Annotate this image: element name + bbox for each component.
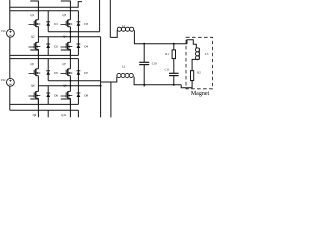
wire C10 bottom lead xyxy=(143,65,145,87)
transistor Q4 xyxy=(68,41,71,43)
wire Q6 drain from mid xyxy=(37,86,39,92)
node leg2-W2 junction xyxy=(69,31,71,33)
svg-text:Q5: Q5 xyxy=(30,62,34,66)
svg-text:D4: D4 xyxy=(84,45,88,49)
wire Q7 source to mid xyxy=(69,76,71,86)
wire L1 feed vertical (cut at top) xyxy=(109,0,111,37)
diode D8 xyxy=(77,92,81,94)
svg-text:Q2: Q2 xyxy=(31,35,35,39)
wire L1 out to top node xyxy=(134,30,144,44)
svg-text:Q11: Q11 xyxy=(61,113,67,117)
node leg2-W1 junction xyxy=(69,85,71,87)
node R1 top junction xyxy=(173,43,175,45)
capacitor C10 xyxy=(139,61,149,63)
wire top node xyxy=(144,43,187,45)
transistor Q1 xyxy=(36,19,39,21)
diode D3 xyxy=(77,11,79,56)
wire bridge3 leg2 stub+bus (cut) xyxy=(61,99,71,117)
wire top rail B xyxy=(10,58,79,60)
diode D6 xyxy=(47,86,49,105)
wire L2 out to bottom node xyxy=(134,77,144,85)
wire DC bus below source 2 xyxy=(9,86,11,110)
svg-text:D5: D5 xyxy=(54,71,58,75)
wire bottom rail xyxy=(10,103,79,105)
wire Q5 source to mid xyxy=(37,76,39,86)
wire Q2 source to rail xyxy=(37,49,39,55)
node C11 bottom junction xyxy=(173,84,175,86)
svg-text:L3: L3 xyxy=(205,52,209,56)
transistor Q7 xyxy=(68,68,71,70)
resistor R2 xyxy=(191,71,194,81)
capacitor C11 xyxy=(169,72,179,74)
svg-text:C11: C11 xyxy=(165,68,170,72)
wire bridge3 rail B (cut) xyxy=(10,109,79,111)
wire Q1 source to mid xyxy=(37,27,39,37)
svg-text:Vd1: Vd1 xyxy=(1,30,6,33)
wire L3 to R2 xyxy=(192,59,199,70)
node link junction xyxy=(100,85,102,87)
transistor Q2 xyxy=(36,41,39,43)
wire mid output W1 xyxy=(38,36,100,38)
inductor L1 xyxy=(117,27,121,31)
svg-text:R2: R2 xyxy=(197,71,201,75)
wire L2 feed xyxy=(101,77,117,82)
diode D1 xyxy=(47,11,49,32)
node leg2-W1 junction xyxy=(69,36,71,38)
svg-text:R1: R1 xyxy=(165,52,169,56)
wire Q6 source to rail xyxy=(37,98,39,104)
wire DC bus vertical top (cut) xyxy=(9,0,11,29)
transistor Q3 xyxy=(68,19,71,21)
wire mid output W2 xyxy=(48,31,99,33)
wire Q4 drain from mid xyxy=(69,37,71,43)
wire L3 axis xyxy=(198,48,200,60)
svg-text:D8: D8 xyxy=(84,94,88,98)
node C10 bottom junction xyxy=(143,84,145,86)
svg-text:L1: L1 xyxy=(122,24,126,28)
svg-text:Q8: Q8 xyxy=(63,84,67,88)
voltage source Vd1 xyxy=(6,29,14,37)
inductor L3 xyxy=(195,48,199,52)
inductor L2 xyxy=(117,73,121,77)
wire bridge3 diode2 line (cut) xyxy=(77,110,79,117)
wire C10 top lead xyxy=(143,44,145,63)
wire R2 bottom lead xyxy=(181,81,192,88)
svg-text:L2: L2 xyxy=(122,65,126,69)
wire bottom rail xyxy=(10,54,79,56)
wire R1 top lead xyxy=(173,44,175,50)
wire leg1 drain bus xyxy=(30,50,38,69)
svg-text:D1: D1 xyxy=(54,22,58,26)
svg-text:Q6: Q6 xyxy=(31,84,35,88)
voltage source Vd2 xyxy=(6,78,14,86)
svg-text:Q1: Q1 xyxy=(30,13,34,17)
wire mid output W2 xyxy=(48,80,100,82)
transistor Q8 xyxy=(68,90,71,92)
wire leg2 drain bus xyxy=(61,1,71,20)
diode D5 xyxy=(47,59,49,81)
wire Q3 source to mid xyxy=(69,27,71,37)
resistor R1 xyxy=(172,50,175,59)
wire Q8 source to rail xyxy=(69,98,71,104)
node leg2-W2 junction xyxy=(69,80,71,82)
wire Q2 drain from mid xyxy=(37,37,39,43)
wire bridge3 leg1 stub+bus (cut) xyxy=(30,99,38,117)
svg-text:D7: D7 xyxy=(84,71,88,75)
wire leg2 drain bus xyxy=(61,50,71,69)
wire to magnet top (hop over box edge) xyxy=(187,40,196,49)
svg-text:Q4: Q4 xyxy=(63,35,67,39)
wire DC bus between sources xyxy=(9,37,11,78)
svg-text:Q7: Q7 xyxy=(62,62,66,66)
wire leg1 drain bus xyxy=(30,1,38,20)
wire Q8 drain from mid xyxy=(69,86,71,92)
wire top rail B xyxy=(10,10,79,12)
wire top rail A xyxy=(10,2,82,8)
svg-text:Vd2: Vd2 xyxy=(1,79,6,82)
wire bottom node xyxy=(144,84,181,86)
transistor Q5 xyxy=(36,68,39,70)
wire C11 bottom lead xyxy=(173,76,175,85)
diode D4 xyxy=(77,43,81,45)
wire R1 to C11 xyxy=(173,59,175,74)
wire Q4 source to rail xyxy=(69,49,71,55)
svg-text:D6: D6 xyxy=(54,94,58,98)
svg-text:Q3: Q3 xyxy=(62,13,66,17)
svg-text:D3: D3 xyxy=(84,22,88,26)
wire lower output vertical (cut at bottom) xyxy=(110,82,112,117)
node C10 top junction xyxy=(143,43,145,45)
transistor Q6 xyxy=(36,90,39,92)
wire L1 lead-in xyxy=(110,30,117,37)
wire series link vertical xyxy=(100,37,102,118)
svg-text:C10: C10 xyxy=(152,61,158,65)
diode D7 xyxy=(77,59,79,105)
diode D2 xyxy=(47,37,49,56)
svg-text:D2: D2 xyxy=(54,45,58,49)
svg-text:Magnet: Magnet xyxy=(191,91,210,97)
wire mid output W1 xyxy=(38,85,100,87)
magnet dashed box xyxy=(186,37,213,89)
svg-text:Q9: Q9 xyxy=(33,113,37,117)
wire output A vertical (cut at top) xyxy=(99,0,101,32)
wire bridge3 diode1 line (cut) xyxy=(47,110,49,117)
